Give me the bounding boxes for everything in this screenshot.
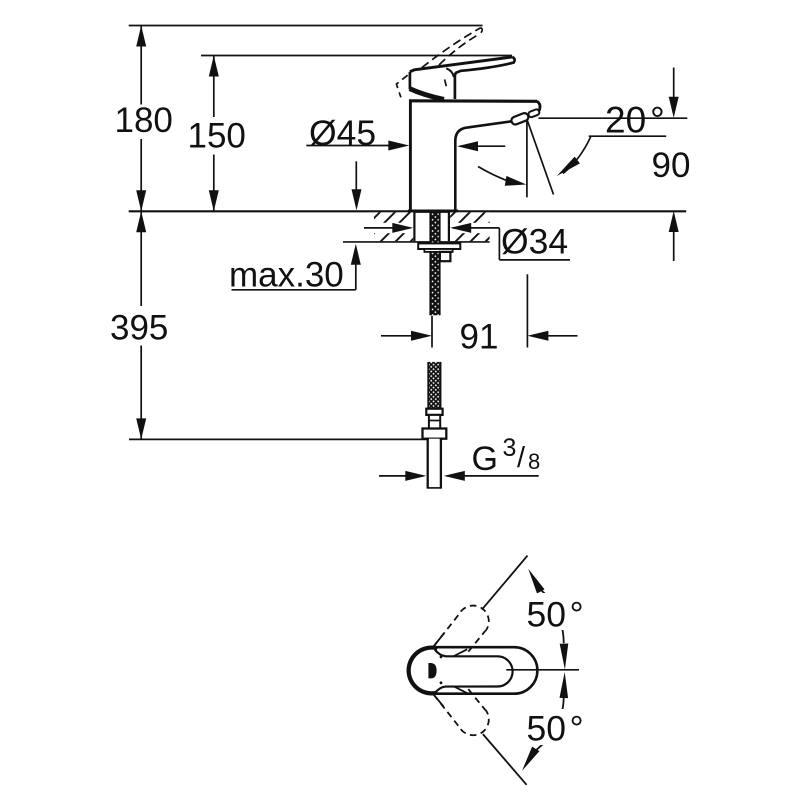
- svg-text:395: 395: [110, 309, 168, 348]
- svg-text:50°: 50°: [527, 709, 584, 749]
- G 3/8 dimension: [379, 434, 540, 481]
- dimension 150: [188, 56, 246, 212]
- lock nut: [440, 252, 451, 261]
- inner lever outline: [435, 650, 513, 694]
- wire: spout outlet reference line (90): [539, 117, 688, 119]
- hatched counter panels: [374, 212, 490, 241]
- svg-text:°: °: [650, 100, 665, 141]
- centerline: [506, 669, 579, 671]
- threaded rod: [430, 212, 439, 315]
- 20 degree dimension: [478, 100, 666, 198]
- dimension 180: [115, 26, 173, 212]
- Ø34 arrows + label: [364, 222, 570, 262]
- connector nut: [423, 429, 447, 439]
- svg-text:8: 8: [528, 449, 540, 474]
- shank walls: [413, 212, 415, 241]
- deck reference arrow: [352, 161, 362, 210]
- Ø45 label + arrows: [306, 113, 505, 153]
- svg-text:Ø45: Ø45: [309, 113, 376, 153]
- dimension 90: [652, 68, 691, 262]
- braided hose: [428, 362, 440, 409]
- handle lever (solid): [410, 57, 515, 100]
- svg-text:/: /: [517, 442, 526, 474]
- dashed swung handle (upper): [434, 606, 489, 652]
- max.30 label: [229, 244, 361, 294]
- dimension 395: [110, 211, 168, 439]
- tube: [428, 439, 441, 489]
- 50 deg rays: [434, 556, 528, 785]
- wire: counter bottom line: [343, 241, 490, 243]
- crimp section: [429, 415, 440, 429]
- svg-text:max.30: max.30: [229, 255, 344, 294]
- 50 deg arcs with arrows (upper): [523, 567, 589, 670]
- wire: counter top line: [129, 210, 687, 212]
- wire: top reference line (180): [129, 25, 483, 27]
- flange bracket: [418, 243, 460, 249]
- wire: handle-tip reference line (150): [201, 55, 512, 57]
- dark mark: [428, 663, 436, 678]
- svg-text:150: 150: [188, 117, 246, 156]
- bold base circle arc: [409, 648, 438, 694]
- svg-text:90: 90: [652, 146, 691, 185]
- neck diagonals: [454, 649, 467, 656]
- svg-text:Ø34: Ø34: [501, 222, 568, 262]
- 50 deg arcs with arrows (lower): [518, 672, 589, 773]
- body column: [409, 100, 540, 211]
- ferrule: [426, 409, 442, 415]
- svg-text:50°: 50°: [527, 595, 584, 635]
- svg-text:91: 91: [460, 318, 499, 357]
- dimension 91: [381, 274, 578, 356]
- dashed swung handle (lower): [434, 689, 489, 735]
- svg-text:180: 180: [115, 101, 173, 140]
- svg-text:G: G: [472, 440, 498, 478]
- svg-text:20: 20: [605, 100, 646, 141]
- handle lever (dashed raised position): [396, 28, 482, 98]
- wire: lower reference line (395): [129, 438, 437, 440]
- outer outline: [408, 647, 537, 694]
- svg-text:3: 3: [503, 434, 517, 462]
- aerator: [510, 109, 540, 126]
